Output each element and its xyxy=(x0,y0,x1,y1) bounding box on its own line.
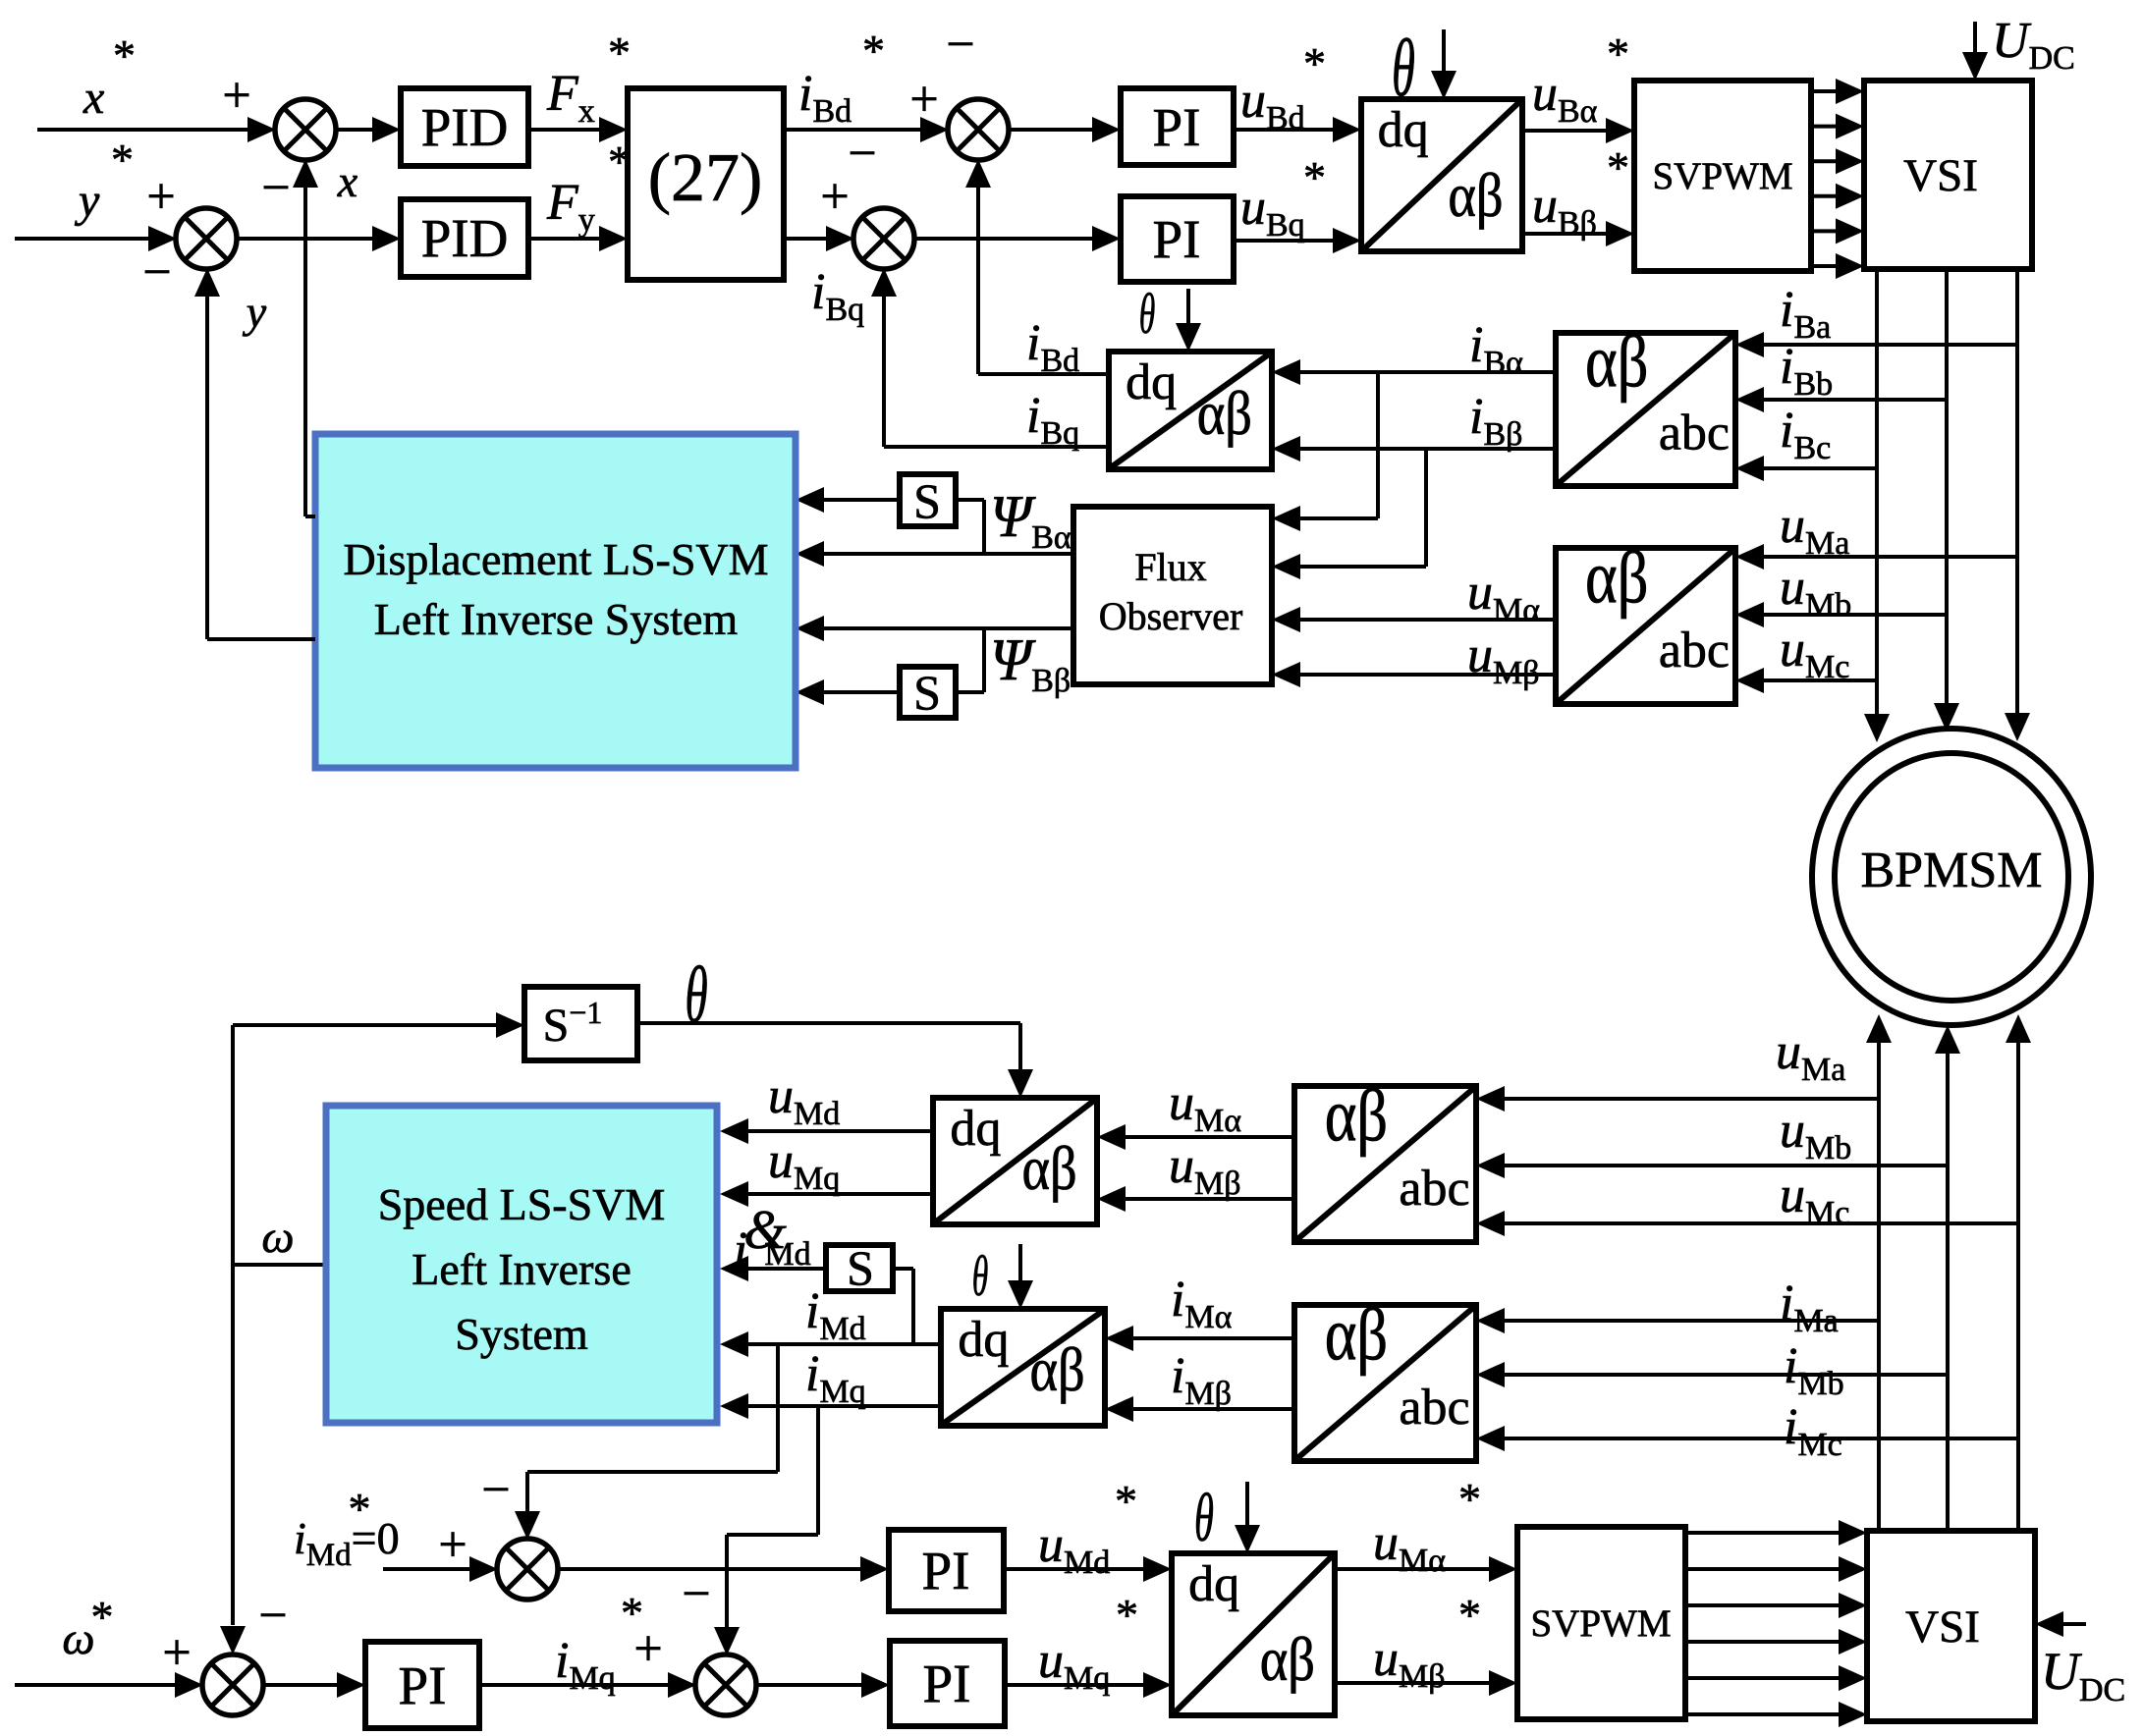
svg-text:PI: PI xyxy=(399,1655,447,1715)
svg-text:System: System xyxy=(455,1309,588,1359)
svg-text:θ: θ xyxy=(685,950,707,1040)
svg-text:PI: PI xyxy=(922,1541,970,1600)
svg-text:PI: PI xyxy=(1153,97,1201,157)
svg-text:Md: Md xyxy=(764,1236,810,1273)
svg-text:−: − xyxy=(848,126,876,182)
svg-text:PID: PID xyxy=(421,208,509,268)
svg-text:*: * xyxy=(349,1484,371,1534)
svg-text:+: + xyxy=(146,169,175,225)
svg-text:BPMSM: BPMSM xyxy=(1861,842,2043,898)
svg-text:αβ: αβ xyxy=(1197,378,1252,448)
svg-text:*: * xyxy=(113,30,136,81)
svg-text:αβ: αβ xyxy=(1585,537,1648,620)
svg-text:ω: ω xyxy=(261,1212,294,1263)
svg-text:VSI: VSI xyxy=(1905,1601,1980,1653)
svg-text:*: * xyxy=(1115,1476,1137,1526)
svg-text:Left Inverse System: Left Inverse System xyxy=(374,594,739,644)
svg-text:*: * xyxy=(1303,152,1326,202)
svg-text:abc: abc xyxy=(1659,623,1730,678)
svg-text:−: − xyxy=(261,160,290,216)
svg-text:y: y xyxy=(243,287,267,337)
svg-text:abc: abc xyxy=(1399,1161,1469,1217)
svg-text:S: S xyxy=(913,665,941,720)
svg-text:SVPWM: SVPWM xyxy=(1652,155,1792,197)
svg-text:*: * xyxy=(1116,1590,1138,1640)
svg-text:+: + xyxy=(909,72,938,128)
svg-text:SVPWM: SVPWM xyxy=(1530,1602,1671,1645)
svg-text:y: y xyxy=(74,175,100,227)
svg-text:+: + xyxy=(438,1517,467,1573)
svg-text:*: * xyxy=(608,27,631,78)
svg-text:+: + xyxy=(820,169,849,225)
svg-text:abc: abc xyxy=(1659,406,1730,461)
svg-text:−: − xyxy=(481,1462,510,1518)
svg-text:−: − xyxy=(142,244,171,300)
svg-text:S: S xyxy=(913,473,941,528)
svg-text:VSI: VSI xyxy=(1903,150,1978,201)
svg-text:−: − xyxy=(682,1566,710,1622)
svg-text:S: S xyxy=(847,1240,874,1295)
svg-text:*: * xyxy=(1303,38,1326,88)
svg-text:θ: θ xyxy=(1194,1481,1214,1556)
svg-text:dq: dq xyxy=(1126,354,1177,410)
svg-text:x: x xyxy=(337,156,358,206)
svg-text:PI: PI xyxy=(1153,209,1201,269)
svg-text:αβ: αβ xyxy=(1325,1294,1388,1377)
svg-text:*: * xyxy=(1607,142,1629,192)
svg-text:αβ: αβ xyxy=(1021,1133,1076,1203)
svg-text:*: * xyxy=(111,135,134,185)
svg-text:*: * xyxy=(862,26,885,76)
svg-text:*: * xyxy=(1458,1474,1481,1524)
svg-text:Left Inverse: Left Inverse xyxy=(412,1244,632,1294)
svg-text:αβ: αβ xyxy=(1448,160,1503,230)
svg-text:+: + xyxy=(162,1625,191,1681)
svg-text:+: + xyxy=(633,1621,662,1677)
svg-text:−: − xyxy=(258,1588,287,1644)
svg-text:PID: PID xyxy=(421,97,509,157)
svg-text:Flux: Flux xyxy=(1134,545,1206,589)
svg-text:αβ: αβ xyxy=(1585,321,1648,404)
svg-text:Displacement LS-SVM: Displacement LS-SVM xyxy=(343,534,768,584)
svg-text:(27): (27) xyxy=(648,140,763,216)
svg-text:αβ: αβ xyxy=(1260,1624,1315,1694)
svg-text:PI: PI xyxy=(923,1654,971,1713)
svg-text:−: − xyxy=(946,17,974,73)
svg-text:αβ: αβ xyxy=(1029,1334,1084,1404)
svg-text:θ: θ xyxy=(1392,22,1415,113)
svg-text:θ: θ xyxy=(972,1246,989,1309)
svg-text:dq: dq xyxy=(958,1312,1009,1368)
svg-text:*: * xyxy=(1458,1590,1481,1640)
svg-text:Speed LS-SVM: Speed LS-SVM xyxy=(378,1179,666,1229)
svg-text:+: + xyxy=(222,68,250,124)
svg-text:*: * xyxy=(91,1592,114,1642)
svg-text:Observer: Observer xyxy=(1099,594,1243,638)
svg-text:*: * xyxy=(1607,28,1629,79)
svg-text:x: x xyxy=(82,72,104,124)
svg-text:θ: θ xyxy=(1139,284,1156,347)
svg-text:αβ: αβ xyxy=(1325,1075,1388,1158)
svg-text:dq: dq xyxy=(1188,1556,1239,1612)
svg-text:abc: abc xyxy=(1399,1380,1469,1436)
svg-text:dq: dq xyxy=(950,1101,1001,1157)
